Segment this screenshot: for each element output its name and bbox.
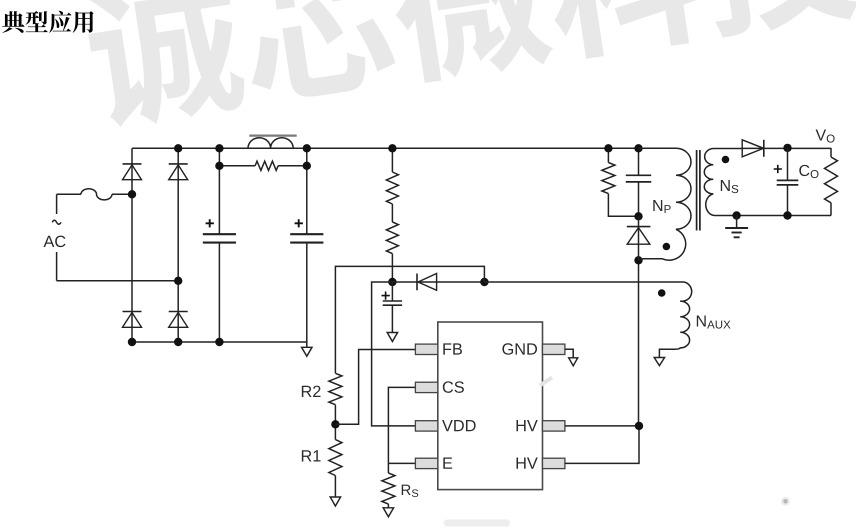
bridge diode D4: [169, 311, 188, 313]
pin HV: [543, 421, 565, 431]
wire FB supply to divider: [335, 266, 484, 373]
junction drain-NP: [634, 256, 642, 264]
capacitor C1 (bulk): [218, 148, 220, 342]
transformer core: [697, 150, 700, 231]
startup resistor Rb: [386, 222, 398, 254]
resistor load: [830, 148, 832, 157]
resistor RS: [382, 473, 395, 504]
junction bottom rail 3: [215, 338, 223, 346]
ground primary: [306, 342, 308, 347]
wire AC hot: [57, 193, 81, 195]
wire E: [388, 463, 415, 473]
junction diode anode node: [480, 278, 488, 286]
op IC U1 body: [438, 322, 543, 490]
junction C1 top: [215, 144, 223, 152]
bridge diode D2: [169, 163, 188, 165]
pin E: [415, 458, 437, 468]
startup resistor Ra: [386, 172, 398, 204]
junction bridge top: [174, 144, 182, 152]
NP phase dot: [663, 243, 671, 251]
inductor L1: [248, 138, 293, 149]
pin VDD: [415, 421, 437, 431]
junction C2 top: [303, 144, 311, 152]
junction bottom rail 2: [174, 338, 182, 346]
junction snubber bottom: [634, 212, 642, 220]
bridge diode D3: [123, 311, 142, 313]
watermark 诚芯微科技: [81, 0, 856, 132]
wire bottom rail: [132, 341, 307, 343]
capacitor C2 (bulk): [306, 148, 308, 342]
junction startup top: [388, 144, 396, 152]
pin HV: [543, 458, 565, 468]
title 典型应用: [2, 11, 94, 33]
wire R1 to ground: [334, 476, 336, 498]
junction VDD node: [388, 278, 396, 286]
wire HV lower: [565, 426, 639, 464]
wire RS to ground: [387, 504, 389, 508]
junction fuse-bridge: [128, 190, 136, 198]
transformer primary NP: [639, 148, 692, 260]
wire snubber R branch: [608, 148, 638, 216]
ground RS: [383, 508, 393, 517]
wire drain line: [638, 260, 641, 426]
wire damping resistor line: [219, 165, 306, 167]
junction filter line right: [303, 162, 311, 170]
ground NAUX: [654, 358, 664, 366]
ground GND pin: [569, 358, 578, 366]
junction filter line left: [215, 162, 223, 170]
wire CS: [388, 387, 415, 463]
junction AC return-bridge: [174, 277, 182, 285]
wire FB: [335, 350, 415, 425]
earth ground secondary: [736, 216, 738, 228]
capacitor C3 (VDD): [391, 282, 393, 333]
wire GND pin: [565, 349, 573, 358]
ground VDD cap: [387, 333, 397, 342]
NS phase dot: [722, 156, 730, 164]
junction bottom rail 1: [128, 338, 136, 346]
wire bridge right branch: [177, 148, 179, 342]
wire startup branch: [391, 148, 393, 282]
pin CS: [415, 382, 437, 392]
diode snubber clamp: [627, 226, 651, 228]
junction earth tap: [732, 211, 740, 219]
fuse: [81, 189, 112, 200]
transformer auxiliary NAUX: [484, 282, 691, 358]
wire fuse to bridge: [112, 193, 132, 195]
inductor core bar: [249, 135, 296, 137]
wire AC return: [57, 280, 179, 282]
junction snubber rail R: [604, 144, 612, 152]
pin FB: [415, 344, 437, 354]
wire top rail: [132, 147, 668, 149]
wire R2-R1: [334, 405, 336, 440]
resistor damping: [255, 161, 278, 170]
capacitor CO: [787, 148, 789, 216]
diode D5 (VDD rectifier): [392, 281, 484, 283]
transformer secondary NS: [704, 148, 831, 215]
wire VDD node to pin: [372, 282, 416, 426]
capacitor snubber: [638, 148, 640, 216]
junction FB divider: [331, 420, 339, 428]
resistor R1: [329, 440, 342, 476]
resistor R2: [329, 373, 342, 404]
diode D6 output rectifier: [742, 147, 831, 149]
junction snubber rail C: [634, 144, 642, 152]
wire snubber to diode: [638, 216, 640, 260]
artifact smudge: [444, 520, 510, 527]
junction CO bottom: [783, 211, 791, 219]
wire HV upper: [565, 425, 639, 427]
wire bridge left branch: [131, 148, 133, 342]
junction VO node: [783, 144, 791, 152]
AC source: [56, 194, 58, 280]
junction HV: [635, 422, 643, 430]
ground R1: [330, 497, 340, 506]
resistor snubber: [602, 163, 615, 194]
pin GND: [543, 344, 565, 354]
NAUX phase dot: [658, 289, 666, 297]
bridge diode D1: [123, 163, 142, 165]
